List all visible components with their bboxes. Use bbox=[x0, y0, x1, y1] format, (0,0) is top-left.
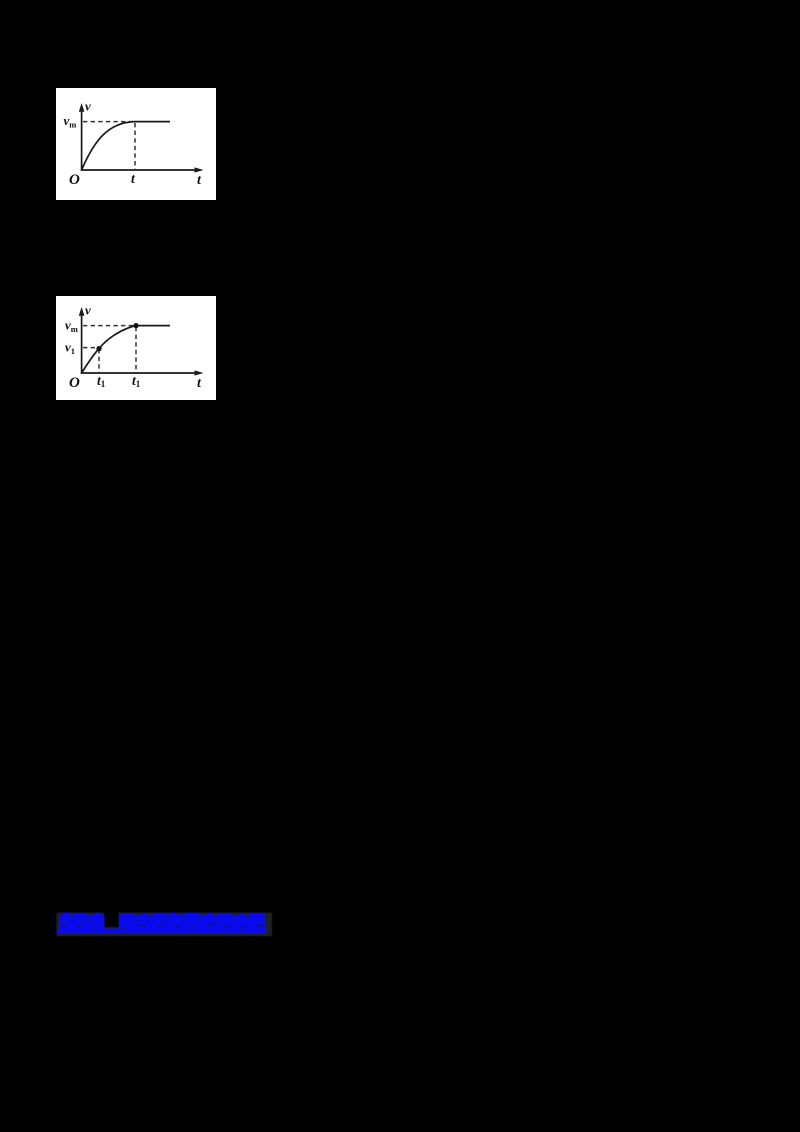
figure 2 white background bbox=[56, 296, 216, 400]
top bumps of glyph silhouette bbox=[64, 913, 244, 917]
figure 1: v-t graph (velocity saturating at v_m) bbox=[56, 88, 216, 200]
link underline bbox=[57, 931, 268, 934]
dashed line vertical at first t1 bbox=[98, 349, 100, 372]
dashed line horizontal at v_m bbox=[83, 121, 135, 123]
dashed line vertical at t bbox=[134, 123, 136, 169]
v axis (vertical) bbox=[79, 103, 85, 171]
point (t1, v_m) bbox=[133, 323, 138, 328]
dark stroke specks inside glyphs bbox=[62, 920, 263, 930]
velocity curve bbox=[82, 326, 170, 373]
svg-text:O: O bbox=[69, 375, 80, 391]
t axis (horizontal) bbox=[81, 370, 204, 375]
svg-text:O: O bbox=[69, 172, 80, 188]
figure 1 white background bbox=[56, 88, 216, 200]
v axis (vertical) bbox=[79, 307, 85, 374]
velocity curve bbox=[82, 122, 170, 170]
underscore of link bbox=[104, 929, 121, 933]
figure 2: v-t graph with points (t1,v1) and (t1,v_m) bbox=[56, 296, 216, 400]
t axis (horizontal) bbox=[81, 167, 204, 172]
svg-text:v: v bbox=[85, 99, 91, 114]
svg-text:v: v bbox=[85, 303, 91, 318]
hyperlink line: blue bold CJK link with underline on dark-gray shaded band bbox=[50, 903, 280, 941]
dashed line horizontal at v_1 bbox=[83, 347, 99, 349]
dashed line horizontal at v_m bbox=[83, 325, 136, 327]
link glyph blobs (bold CJK glyph strip, lower slab merged) bbox=[60, 913, 266, 934]
dashed line vertical at second t1 bbox=[135, 327, 137, 372]
point (t1, v1) bbox=[96, 346, 101, 351]
black notch above underscore bbox=[104, 903, 119, 927]
extra stroke texture segments bbox=[62, 924, 263, 929]
shaded band behind link bbox=[57, 913, 273, 937]
